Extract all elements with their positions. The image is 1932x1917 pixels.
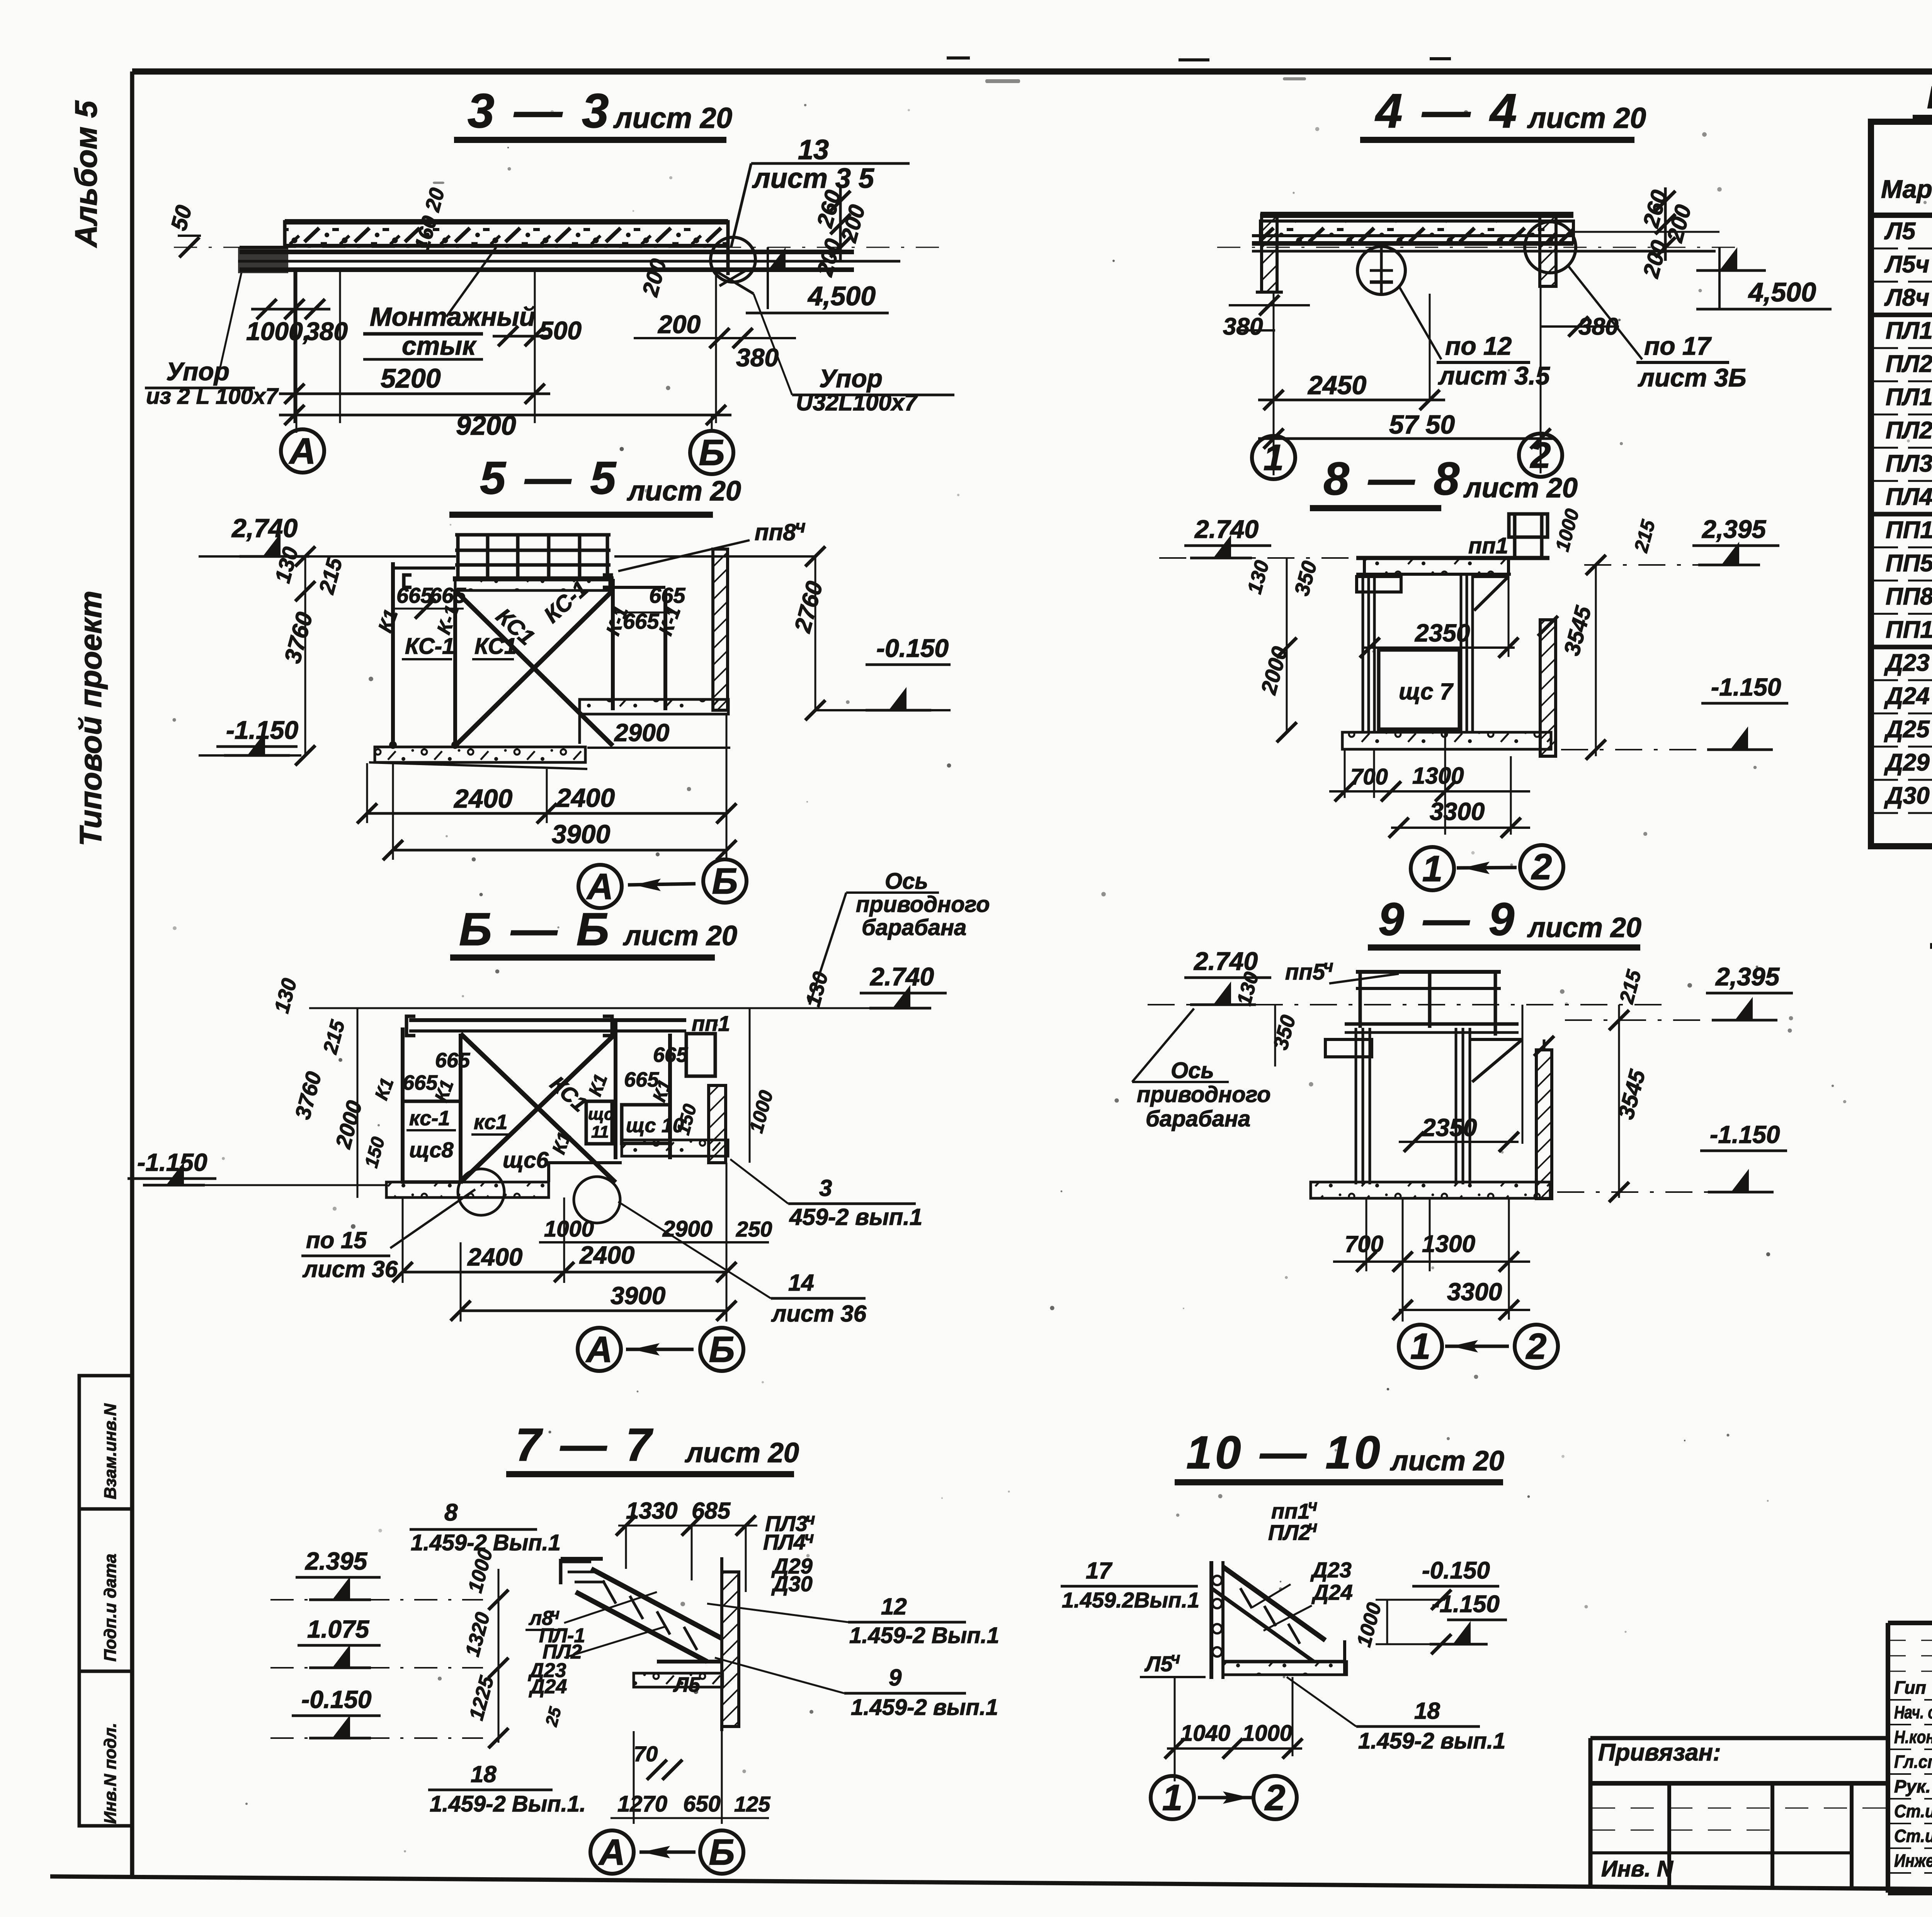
svg-text:4,500: 4,500: [1748, 277, 1816, 307]
svg-text:-1.150: -1.150: [137, 1148, 207, 1176]
svg-text:3900: 3900: [611, 1282, 665, 1310]
svg-text:щс8: щс8: [409, 1138, 454, 1162]
svg-text:1300: 1300: [1422, 1231, 1475, 1257]
svg-text:ПЛ2: ПЛ2: [1268, 1520, 1311, 1544]
svg-text:1040: 1040: [1180, 1721, 1230, 1746]
svg-text:Л5ч: Л5ч: [1884, 251, 1929, 278]
svg-text:-0.150: -0.150: [876, 634, 949, 662]
svg-text:пп1: пп1: [1468, 533, 1508, 558]
svg-text:Д23: Д23: [1884, 650, 1930, 676]
svg-text:Марка: Марка: [1881, 175, 1932, 203]
svg-text:ч: ч: [1323, 957, 1333, 976]
svg-text:2: 2: [1264, 1777, 1286, 1818]
svg-text:ч: ч: [1171, 1649, 1180, 1667]
svg-text:лист 20: лист 20: [1390, 1446, 1504, 1476]
svg-text:2350: 2350: [1422, 1114, 1477, 1141]
svg-text:Д24: Д24: [529, 1675, 567, 1698]
svg-text:665: 665: [653, 1043, 688, 1067]
svg-text:ч: ч: [795, 516, 806, 536]
svg-text:380: 380: [305, 317, 348, 345]
svg-text:1270: 1270: [617, 1791, 667, 1817]
svg-text:ПЛ4: ПЛ4: [763, 1530, 806, 1554]
svg-text:2350: 2350: [1415, 619, 1470, 647]
svg-text:18: 18: [471, 1761, 497, 1787]
svg-text:ПП5ч: ПП5ч: [1886, 550, 1932, 577]
svg-text:9200: 9200: [456, 410, 516, 441]
svg-text:лист 3 5: лист 3 5: [752, 163, 874, 194]
svg-text:Инженер: Инженер: [1894, 1851, 1932, 1871]
svg-text:8: 8: [444, 1499, 458, 1526]
svg-text:пп8: пп8: [755, 519, 796, 545]
svg-text:2: 2: [1531, 846, 1552, 887]
svg-text:4 — 4: 4 — 4: [1374, 84, 1520, 138]
svg-text:по 17: по 17: [1644, 332, 1712, 360]
svg-text:щс: щс: [588, 1105, 614, 1124]
svg-text:Б: Б: [699, 432, 724, 473]
svg-text:2400: 2400: [467, 1243, 522, 1271]
svg-text:500: 500: [539, 316, 582, 345]
svg-text:2.740: 2.740: [1193, 947, 1258, 975]
svg-text:барабана: барабана: [1146, 1106, 1250, 1131]
svg-text:Д30: Д30: [1884, 782, 1930, 809]
svg-text:Д23: Д23: [1310, 1558, 1352, 1582]
svg-text:Подп.и дата: Подп.и дата: [101, 1554, 120, 1662]
svg-text:Б: Б: [709, 1329, 735, 1370]
svg-text:ПЛ4ч: ПЛ4ч: [1886, 483, 1932, 510]
svg-text:665: 665: [403, 1071, 438, 1094]
svg-text:13: 13: [798, 134, 829, 165]
svg-text:приводного: приводного: [856, 892, 990, 917]
svg-text:ч: ч: [806, 1510, 815, 1528]
svg-text:1: 1: [1410, 1326, 1431, 1367]
svg-text:барабана: барабана: [862, 915, 966, 940]
svg-text:9: 9: [889, 1665, 902, 1691]
svg-text:Рук. гр.: Рук. гр.: [1894, 1776, 1932, 1796]
svg-text:лист 36: лист 36: [302, 1256, 398, 1282]
svg-text:лист 20: лист 20: [613, 102, 732, 134]
svg-text:665: 665: [649, 583, 685, 607]
svg-text:3300: 3300: [1447, 1278, 1502, 1306]
svg-text:Б: Б: [712, 861, 738, 902]
svg-text:125: 125: [734, 1792, 770, 1816]
svg-text:ПЛ2: ПЛ2: [1886, 351, 1932, 378]
svg-text:665: 665: [435, 1049, 470, 1072]
svg-text:2,395: 2,395: [1701, 515, 1766, 543]
svg-text:14: 14: [788, 1270, 814, 1296]
svg-text:лист 20: лист 20: [1527, 912, 1641, 943]
svg-text:2400: 2400: [556, 783, 615, 813]
svg-text:пп5: пп5: [1285, 959, 1325, 985]
svg-text:Ведомость элементов по серии: Ведомость элементов по серии 1.459-2 вып…: [1927, 80, 1932, 115]
svg-text:щс6: щс6: [503, 1148, 549, 1173]
svg-text:250: 250: [736, 1217, 772, 1241]
svg-text:1300: 1300: [1412, 763, 1464, 789]
svg-text:Альбом 5: Альбом 5: [69, 100, 103, 248]
svg-text:Д24: Д24: [1311, 1580, 1353, 1604]
svg-text:-1.150: -1.150: [1432, 1591, 1500, 1618]
svg-text:ПП1: ПП1: [1886, 517, 1932, 543]
svg-text:1: 1: [1162, 1777, 1183, 1818]
svg-text:из 2 L 100х7: из 2 L 100х7: [146, 384, 279, 409]
svg-text:ПП10: ПП10: [1886, 616, 1932, 643]
svg-text:Инв. N: Инв. N: [1601, 1856, 1673, 1881]
svg-text:2.740: 2.740: [869, 962, 934, 991]
svg-text:кс-1: кс-1: [409, 1107, 450, 1130]
svg-text:Л5: Л5: [1884, 218, 1916, 245]
svg-text:665: 665: [430, 583, 466, 607]
svg-text:1.459-2 вып.1: 1.459-2 вып.1: [851, 1695, 998, 1720]
svg-text:лист 20: лист 20: [623, 920, 737, 951]
svg-text:2400: 2400: [579, 1241, 634, 1269]
svg-text:кс1: кс1: [474, 1111, 507, 1134]
svg-text:380: 380: [1578, 313, 1618, 340]
svg-text:18: 18: [1414, 1698, 1440, 1724]
svg-text:1: 1: [1264, 437, 1284, 478]
svg-text:Д25: Д25: [1884, 716, 1930, 743]
svg-text:лист 20: лист 20: [1527, 102, 1646, 134]
svg-text:1000: 1000: [1242, 1721, 1292, 1746]
svg-text:-0.150: -0.150: [1422, 1557, 1490, 1584]
svg-text:10 — 10: 10 — 10: [1186, 1427, 1383, 1478]
svg-text:ПП8 ч: ПП8 ч: [1886, 583, 1932, 610]
svg-text:А: А: [585, 1329, 613, 1370]
svg-text:-0.150: -0.150: [301, 1686, 371, 1713]
svg-text:7 — 7: 7 — 7: [515, 1419, 655, 1471]
svg-text:Гл.спец.: Гл.спец.: [1894, 1752, 1932, 1772]
svg-text:700: 700: [1350, 764, 1388, 789]
svg-text:Инв.N подл.: Инв.N подл.: [101, 1723, 120, 1824]
svg-text:Б — Б: Б — Б: [459, 903, 612, 955]
svg-text:2400: 2400: [453, 784, 512, 813]
svg-text:Упор: Упор: [819, 364, 883, 393]
svg-text:12: 12: [881, 1594, 907, 1619]
svg-text:Н.контр.: Н.контр.: [1894, 1727, 1932, 1747]
svg-text:1: 1: [1422, 848, 1443, 889]
svg-text:ч: ч: [804, 1528, 814, 1546]
svg-text:ч: ч: [551, 1606, 560, 1623]
svg-text:ПЛ3ч: ПЛ3ч: [1886, 451, 1932, 477]
svg-text:приводного: приводного: [1137, 1082, 1271, 1107]
svg-text:4,500: 4,500: [807, 281, 876, 311]
svg-text:Л5: Л5: [1144, 1652, 1173, 1676]
svg-text:200: 200: [657, 310, 701, 338]
svg-text:лист 20: лист 20: [685, 1437, 799, 1468]
svg-text:380: 380: [736, 343, 779, 372]
svg-text:Б: Б: [709, 1832, 735, 1873]
svg-text:2.395: 2.395: [305, 1547, 368, 1575]
svg-text:ПЛ1ч: ПЛ1ч: [1886, 384, 1932, 411]
svg-text:17: 17: [1086, 1558, 1112, 1584]
svg-text:650: 650: [683, 1791, 721, 1817]
svg-text:57 50: 57 50: [1389, 410, 1455, 439]
svg-text:А: А: [289, 430, 316, 471]
svg-text:2900: 2900: [614, 719, 669, 747]
svg-text:ПЛ1: ПЛ1: [1886, 318, 1932, 344]
svg-text:Гип: Гип: [1894, 1677, 1926, 1698]
svg-text:по 15: по 15: [306, 1227, 367, 1253]
svg-text:1.459-2 Вып.1: 1.459-2 Вып.1: [849, 1623, 999, 1648]
svg-text:А: А: [598, 1832, 626, 1873]
svg-text:1000,: 1000,: [246, 317, 310, 345]
svg-text:8 — 8: 8 — 8: [1323, 453, 1463, 505]
svg-text:Ось: Ось: [1171, 1058, 1214, 1083]
svg-text:-1.150: -1.150: [1710, 1121, 1780, 1148]
svg-text:459-2 вып.1: 459-2 вып.1: [789, 1204, 922, 1230]
svg-text:Д29: Д29: [1884, 749, 1930, 776]
svg-text:Нач. отд.: Нач. отд.: [1894, 1702, 1932, 1722]
svg-text:2,395: 2,395: [1715, 962, 1780, 991]
svg-text:Ст.инж.: Ст.инж.: [1894, 1826, 1932, 1846]
svg-text:-1.150: -1.150: [1711, 673, 1781, 701]
svg-text:1.459-2 Вып.1.: 1.459-2 Вып.1.: [430, 1791, 586, 1817]
svg-text:Типовой проект: Типовой проект: [73, 591, 108, 846]
svg-text:700: 700: [1345, 1231, 1383, 1257]
svg-text:2900: 2900: [662, 1216, 713, 1242]
svg-text:лист 3.5: лист 3.5: [1438, 361, 1550, 390]
svg-text:лист 3Б: лист 3Б: [1638, 363, 1747, 392]
svg-text:2: 2: [1530, 435, 1551, 476]
svg-text:3300: 3300: [1430, 798, 1485, 825]
svg-text:3900: 3900: [552, 820, 610, 849]
svg-text:Привязан:: Привязан:: [1598, 1739, 1721, 1766]
svg-text:5200: 5200: [381, 363, 441, 393]
svg-text:1000: 1000: [544, 1216, 594, 1242]
svg-text:ч: ч: [1308, 1517, 1318, 1536]
svg-text:3 — 3: 3 — 3: [468, 84, 612, 138]
svg-text:стык: стык: [402, 331, 477, 361]
svg-text:КС-1: КС-1: [405, 634, 454, 659]
svg-text:лист 36: лист 36: [771, 1301, 867, 1327]
svg-text:70: 70: [634, 1742, 658, 1766]
svg-text:5 — 5: 5 — 5: [480, 452, 619, 504]
svg-text:Л8ч: Л8ч: [1884, 284, 1929, 311]
svg-text:по 12: по 12: [1445, 332, 1512, 360]
svg-text:2: 2: [1526, 1326, 1547, 1367]
svg-text:1.459.2Вып.1: 1.459.2Вып.1: [1062, 1588, 1199, 1612]
svg-text:11: 11: [591, 1123, 609, 1141]
svg-text:2.740: 2.740: [1194, 515, 1259, 543]
svg-text:1.075: 1.075: [307, 1615, 370, 1643]
svg-text:А: А: [586, 866, 614, 907]
svg-text:380: 380: [1223, 313, 1263, 340]
svg-text:лист 20: лист 20: [627, 476, 741, 507]
svg-text:лист 20: лист 20: [1463, 473, 1578, 503]
svg-text:Ось: Ось: [885, 869, 928, 894]
svg-text:1.459-2 вып.1: 1.459-2 вып.1: [1358, 1728, 1505, 1754]
svg-text:Ст.инж.: Ст.инж.: [1894, 1801, 1932, 1821]
svg-text:Д24: Д24: [1884, 683, 1930, 709]
svg-text:2,740: 2,740: [231, 514, 298, 543]
svg-text:3: 3: [819, 1175, 832, 1201]
svg-text:пп1: пп1: [1271, 1499, 1310, 1523]
svg-text:2450: 2450: [1307, 371, 1366, 400]
svg-text:U32L100х7: U32L100х7: [796, 390, 918, 415]
svg-text:Д30: Д30: [771, 1572, 813, 1596]
svg-text:ч: ч: [1308, 1496, 1318, 1514]
svg-text:Взам.инв.N: Взам.инв.N: [101, 1403, 120, 1499]
svg-text:9 — 9: 9 — 9: [1378, 893, 1517, 945]
svg-text:щс 7: щс 7: [1399, 679, 1454, 704]
